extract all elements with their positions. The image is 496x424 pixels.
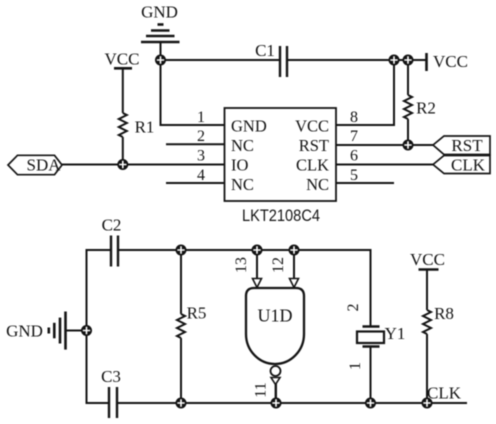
svg-text:1: 1: [197, 109, 205, 126]
svg-text:NC: NC: [231, 175, 254, 194]
wire crystal bottom lead: [370, 347, 372, 403]
svg-text:NC: NC: [306, 175, 329, 194]
svg-text:12: 12: [270, 257, 287, 273]
svg-text:6: 6: [350, 148, 358, 165]
wire R5 top lead: [180, 250, 182, 314]
svg-text:VCC: VCC: [410, 250, 445, 269]
wire R5 bottom lead: [180, 338, 182, 403]
node junction top net / R2 branch: [403, 55, 414, 66]
resistor R2: [404, 95, 412, 119]
resistor R8: [423, 310, 431, 334]
svg-text:5: 5: [350, 167, 358, 184]
wire NAND input pin 13 lead: [256, 250, 258, 279]
resistor R5: [177, 314, 185, 338]
power VCC top left bar: [114, 67, 132, 70]
node junction GND / top net: [155, 55, 166, 66]
svg-text:8: 8: [350, 109, 358, 126]
node junction R5 top: [176, 245, 187, 256]
svg-text:2: 2: [345, 304, 362, 312]
NAND output arrowhead: [271, 378, 280, 385]
svg-text:GND: GND: [231, 117, 267, 136]
crystal Y1 body: [357, 332, 384, 344]
node junction crystal bottom: [365, 398, 376, 409]
svg-text:R8: R8: [434, 304, 454, 323]
wire bottom row right of C3: [118, 402, 467, 404]
svg-text:NC: NC: [231, 136, 254, 155]
ground GND top symbol: [141, 25, 180, 43]
resistor R1: [119, 113, 127, 137]
wire pin 1 to top net: [161, 59, 225, 125]
svg-text:13: 13: [233, 257, 250, 273]
wire NAND input pin 12 lead: [293, 250, 295, 279]
wire pin 8 to top net: [337, 61, 395, 125]
wire NAND output pin 11 lead: [275, 383, 277, 403]
wire R1 bottom lead: [122, 137, 124, 165]
svg-text:3: 3: [197, 148, 205, 165]
node junction R8 / CLK: [422, 398, 433, 409]
crystal Y1 top plate: [363, 325, 380, 328]
power VCC top right bar: [425, 53, 428, 71]
wire R2 top lead: [407, 60, 409, 95]
svg-text:LKT2108C4: LKT2108C4: [242, 206, 320, 225]
nand gate U1D body: [246, 288, 304, 364]
node junction NAND input 12: [289, 245, 300, 256]
svg-text:VCC: VCC: [433, 52, 468, 71]
wire R8 top lead: [426, 270, 428, 311]
svg-text:C1: C1: [255, 41, 275, 60]
svg-text:R5: R5: [187, 304, 207, 323]
svg-text:R1: R1: [135, 118, 155, 137]
wire bottom row left of C3: [86, 402, 109, 404]
svg-text:VCC: VCC: [105, 50, 140, 69]
svg-text:IO: IO: [231, 156, 248, 175]
svg-text:CLK: CLK: [296, 156, 329, 175]
wire pin 7 to RST port: [337, 144, 434, 146]
svg-text:U1D: U1D: [258, 306, 293, 326]
capacitor C2: [111, 236, 118, 267]
NAND input 13 arrowhead: [253, 279, 262, 288]
node junction R5 bottom: [176, 398, 187, 409]
wire R2 bottom lead: [407, 119, 409, 145]
svg-text:GND: GND: [6, 322, 43, 341]
wire R1 top lead: [122, 68, 124, 113]
crystal Y1 bottom plate: [363, 345, 380, 348]
svg-text:CLK: CLK: [451, 156, 486, 175]
NAND input 12 arrowhead: [290, 279, 299, 288]
svg-text:CLK: CLK: [427, 384, 462, 403]
svg-text:VCC: VCC: [295, 117, 329, 136]
node junction SDA / R1: [117, 159, 128, 170]
wire pin 2 stub: [166, 143, 224, 145]
node junction GND / left column: [81, 325, 92, 336]
wire top net horizontal right of C1: [288, 59, 426, 61]
wire R8 bottom lead: [426, 334, 428, 403]
svg-text:RST: RST: [299, 136, 329, 155]
wire pin 6 to CLK port: [337, 164, 434, 166]
svg-text:1: 1: [347, 362, 364, 370]
svg-text:Y1: Y1: [385, 324, 406, 343]
port SDA flag: [8, 155, 62, 174]
ground GND bottom symbol: [49, 312, 66, 350]
svg-text:4: 4: [197, 167, 205, 184]
svg-text:R2: R2: [416, 99, 436, 118]
wire pin 4 stub: [166, 182, 224, 184]
wire top row right of C2: [119, 250, 371, 326]
capacitor C1: [280, 46, 287, 77]
node junction NAND input 13: [252, 245, 263, 256]
svg-text:C2: C2: [102, 216, 122, 235]
wire top net horizontal left of C1: [161, 59, 280, 61]
capacitor C3: [109, 387, 117, 418]
node junction top net / pin8 branch: [389, 55, 400, 66]
wire GND bottom stub: [66, 330, 87, 332]
wire pin 5 stub: [337, 182, 395, 184]
wire GND to top net: [160, 43, 162, 60]
power VCC bottom right bar: [419, 268, 439, 271]
nand gate U1D output bubble: [271, 366, 281, 376]
svg-text:SDA: SDA: [26, 156, 61, 175]
svg-text:2: 2: [197, 128, 205, 145]
svg-text:RST: RST: [451, 136, 483, 155]
node junction NAND output: [271, 398, 282, 409]
svg-text:7: 7: [350, 128, 358, 145]
svg-text:C3: C3: [101, 367, 121, 386]
node junction R2 / RST: [403, 140, 414, 151]
wire left column vertical: [86, 250, 88, 403]
port RST flag: [433, 136, 490, 155]
wire SDA to IC pin 3: [62, 164, 224, 166]
wire top row left of C2: [86, 249, 111, 251]
svg-text:11: 11: [253, 382, 270, 397]
svg-text:GND: GND: [141, 3, 178, 22]
port CLK flag: [433, 156, 490, 174]
IC U1 LKT2108C4 body: [225, 108, 337, 201]
